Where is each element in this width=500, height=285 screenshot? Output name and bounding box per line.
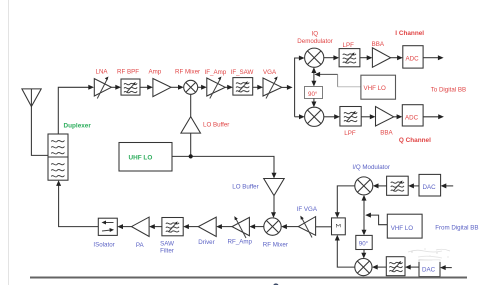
- wire DAC to filter: [413, 185, 419, 187]
- junction node: [189, 154, 193, 158]
- svg-text:IF_SAW: IF_SAW: [231, 69, 254, 76]
- svg-text:Σ: Σ: [334, 224, 341, 228]
- svg-text:90°: 90°: [359, 241, 369, 248]
- wire UHF LO to LO buffer down: [172, 156, 274, 173]
- svg-text:DAC: DAC: [422, 267, 436, 274]
- page number mark cut off: [274, 283, 279, 285]
- svg-text:90°: 90°: [308, 91, 318, 98]
- IQ demod I mixer: [305, 48, 324, 67]
- faint left page edge: [8, 0, 10, 285]
- wire LO buffer down to TX mixer: [273, 196, 275, 214]
- svg-text:LNA: LNA: [96, 69, 109, 76]
- svg-text:VHF LO: VHF LO: [364, 85, 387, 92]
- ADC Q: [402, 105, 423, 126]
- svg-text:I/Q Modulator: I/Q Modulator: [352, 164, 390, 171]
- wire RF mixer down to LO buffer up: [190, 94, 192, 116]
- wire 90 box to Q mixer: [313, 99, 315, 104]
- wire SAW to PA: [154, 226, 162, 228]
- svg-text:SAW: SAW: [160, 241, 174, 248]
- wire junction to 90 box: [313, 74, 315, 82]
- I/Q Modulator top mixer: [355, 177, 373, 195]
- wire isolator to duplexer: [59, 185, 99, 227]
- wire top mixer to sigma: [337, 186, 355, 214]
- wire 90 TX to bottom mixer: [363, 250, 365, 255]
- wire RF_Amp to Driver: [221, 226, 232, 228]
- IF VGA: [298, 216, 315, 238]
- svg-text:To Digital BB: To Digital BB: [431, 87, 466, 94]
- antenna: [22, 89, 41, 107]
- wire Amp to RF mixer: [171, 86, 179, 88]
- TX filter bottom: [386, 257, 405, 276]
- Driver: [198, 217, 216, 236]
- svg-text:VHF LO: VHF LO: [391, 225, 414, 232]
- LPF I: [339, 49, 360, 67]
- wire antenna to duplexer: [31, 107, 48, 156]
- VHF LO box TX: [387, 214, 422, 238]
- svg-text:ADC: ADC: [405, 115, 419, 122]
- output Q arrow: [423, 116, 439, 118]
- LPF Q: [340, 107, 361, 127]
- svg-text:VGA: VGA: [263, 69, 277, 76]
- wire TX mixer to RF_Amp: [254, 226, 264, 228]
- wire junction down to 90 TX: [363, 215, 365, 231]
- wire VHF LO TX to junction: [370, 215, 387, 225]
- LNA: [94, 77, 111, 99]
- wire LO buffer up to junction: [190, 133, 192, 156]
- svg-text:RF Mixer: RF Mixer: [263, 242, 288, 249]
- wire IF_SAW to VGA: [253, 86, 259, 88]
- svg-text:BBA: BBA: [380, 129, 393, 136]
- wire into bottom DAC from right: [444, 267, 451, 269]
- LO Buffer down: [264, 179, 285, 196]
- Duplexer: [48, 134, 68, 180]
- svg-text:IQ: IQ: [312, 31, 319, 38]
- wire split vertical: [295, 58, 300, 117]
- output I arrow: [423, 57, 439, 59]
- watermark smudge: [402, 246, 458, 262]
- I/Q Modulator bottom mixer: [355, 259, 372, 276]
- wire Q mixer to LPF Q: [324, 116, 335, 118]
- wire split to Q mixer: [295, 116, 300, 118]
- TX filter top: [387, 176, 409, 195]
- svg-text:UHF LO: UHF LO: [129, 155, 153, 162]
- BBA I: [372, 48, 390, 68]
- TX RF mixer: [264, 218, 281, 235]
- wire Driver to SAW: [188, 226, 198, 228]
- sigma box: [332, 218, 346, 235]
- wire top mixer up arrow from LO: [363, 200, 365, 216]
- svg-text:LPF: LPF: [343, 42, 355, 49]
- wire RF BPF to Amp: [140, 86, 148, 88]
- RF Mixer: [184, 80, 198, 94]
- wire PA to isolator: [122, 226, 132, 228]
- svg-text:Driver: Driver: [198, 239, 215, 246]
- wire RF mixer to IF_Amp: [198, 86, 202, 88]
- RF BPF: [121, 79, 140, 95]
- svg-text:LO Buffer: LO Buffer: [232, 184, 258, 191]
- wire duplexer to LNA: [58, 87, 89, 134]
- Amp: [153, 79, 171, 97]
- svg-text:From Digital BB: From Digital BB: [435, 225, 478, 232]
- svg-text:Filter: Filter: [160, 248, 174, 255]
- svg-text:RF Mixer: RF Mixer: [175, 69, 200, 76]
- VGA: [263, 77, 282, 99]
- wire BBA Q to ADC Q: [394, 116, 398, 118]
- svg-text:LO Buffer: LO Buffer: [203, 122, 229, 129]
- wire IF VGA to TX mixer: [286, 226, 298, 228]
- ADC I: [403, 46, 423, 68]
- VHF LO box RX: [361, 75, 396, 99]
- BBA Q: [376, 107, 394, 127]
- Isolator: [98, 218, 117, 235]
- svg-text:I Channel: I Channel: [395, 30, 424, 37]
- IQ demod Q mixer: [305, 107, 324, 126]
- svg-text:BBA: BBA: [372, 41, 385, 48]
- wire into DAC from right: [445, 185, 453, 187]
- wire filter to top mixer: [378, 185, 387, 187]
- 90 box RX: [305, 87, 323, 99]
- junction below I mixer: [313, 71, 315, 74]
- bottom border line: [30, 277, 467, 279]
- svg-text:IF_Amp: IF_Amp: [205, 69, 227, 76]
- VHF LO wire to junction: [338, 86, 361, 88]
- svg-text:RF BPF: RF BPF: [117, 69, 139, 76]
- wire LPF I to BBA I: [360, 57, 368, 59]
- svg-text:LPF: LPF: [344, 130, 356, 137]
- svg-text:ISolator: ISolator: [93, 242, 114, 249]
- wire BBA I to ADC I: [391, 57, 398, 59]
- wire bottom DAC to filter: [410, 266, 419, 268]
- svg-text:Q Channel: Q Channel: [399, 137, 431, 144]
- svg-text:DAC: DAC: [423, 184, 437, 191]
- RF_Amp: [232, 216, 249, 238]
- IF_SAW: [233, 78, 253, 96]
- IF_Amp: [207, 77, 225, 99]
- wire I mixer to LPF I: [324, 57, 335, 59]
- SAW Filter: [162, 218, 183, 236]
- wire bottom filter to mixer: [377, 266, 387, 268]
- wire LNA to RF BPF: [111, 86, 116, 88]
- wire LPF Q to BBA Q: [361, 116, 371, 118]
- UHF LO box: [119, 143, 172, 172]
- wire VGA to IQ split: [282, 86, 288, 88]
- svg-text:RF_Amp: RF_Amp: [228, 239, 253, 246]
- svg-text:PA: PA: [136, 242, 145, 249]
- svg-text:IF VGA: IF VGA: [297, 206, 318, 213]
- wire IF_Amp to IF_SAW: [225, 86, 228, 88]
- DAC top: [419, 174, 441, 196]
- wire sigma to IF VGA: [316, 226, 332, 228]
- 90 box TX: [356, 235, 372, 249]
- LO Buffer up: [181, 117, 201, 134]
- svg-text:Demodulator: Demodulator: [297, 38, 332, 45]
- svg-text:Amp: Amp: [149, 69, 162, 76]
- PA: [132, 217, 150, 236]
- wire bottom mixer to sigma: [337, 239, 355, 267]
- DAC bottom: [419, 260, 440, 277]
- svg-text:Duplexer: Duplexer: [64, 123, 92, 130]
- svg-text:ADC: ADC: [406, 56, 420, 63]
